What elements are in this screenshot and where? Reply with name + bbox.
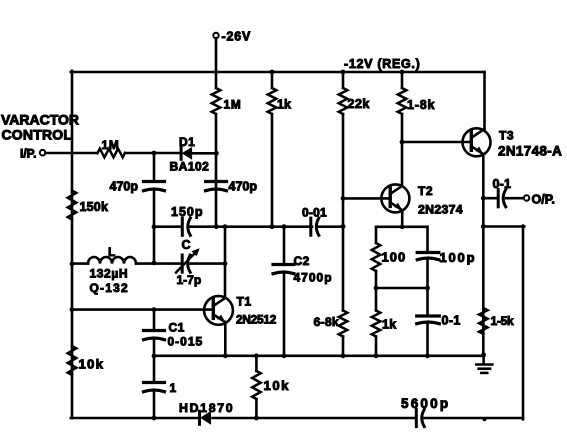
svg-text:0-1: 0-1: [442, 314, 461, 328]
junction: link to tank wire: [223, 224, 228, 229]
resistor 1M (series input): [98, 149, 126, 158]
label C1: [169, 321, 185, 335]
resistor 1.8k: [398, 88, 407, 114]
label 0-01: [302, 206, 327, 220]
variable capacitor C 1-7p: [176, 248, 200, 272]
label -12V (REG.): [344, 57, 420, 71]
label 1M: [224, 98, 242, 112]
junction: ground node: [481, 352, 486, 357]
wire: output tap to 0.1: [483, 197, 498, 200]
label -26V: [222, 30, 252, 44]
junction: tank at left rail: [70, 261, 75, 266]
junction: T1 collector node: [223, 261, 228, 266]
label 1: [170, 381, 177, 395]
svg-text:5600p: 5600p: [401, 396, 450, 411]
resistor 1.5k: [479, 308, 488, 334]
wire: 1k branch: [375, 288, 378, 311]
ground symbol: [476, 355, 492, 373]
label 1k (top): [277, 98, 291, 112]
label 470p (right): [229, 180, 258, 194]
wire: tank to 150p: [154, 225, 182, 228]
wire: 0.01 to 22k rail: [319, 225, 344, 228]
resistor 6.8k: [339, 311, 348, 337]
svg-text:D1: D1: [179, 135, 195, 149]
svg-text:1-8k: 1-8k: [407, 98, 435, 112]
svg-text:-12V (REG.): -12V (REG.): [344, 57, 420, 71]
resistor 100 ohm: [372, 243, 381, 271]
svg-text:VARACTOR: VARACTOR: [1, 112, 79, 128]
svg-text:6-8k: 6-8k: [314, 315, 339, 329]
wire: right vertical rail: [522, 226, 525, 420]
junction: bottom bus at 1 cap: [152, 416, 157, 421]
label Q-132: [90, 281, 129, 295]
label BA102: [170, 160, 210, 174]
resistor 1k (top): [268, 88, 277, 114]
junction: tank top node: [152, 261, 157, 266]
transistor T2 2N2374: [381, 184, 409, 212]
wire: 150p to 0.01 row: [191, 225, 313, 228]
svg-text:1-7p: 1-7p: [177, 273, 202, 287]
capacitor 0.1 (emitter bypass): [417, 316, 440, 324]
wire: varactor node down to 470p: [153, 153, 156, 182]
svg-text:BA102: BA102: [170, 160, 210, 174]
label 0-1 (bypass): [442, 314, 461, 328]
capacitor 470p (left): [144, 182, 165, 191]
svg-text:0-01: 0-01: [302, 206, 327, 220]
wire: bottom return bus (HD1870 to 5600p): [213, 417, 417, 420]
terminal: -26V supply: [213, 33, 218, 38]
svg-text:1M: 1M: [224, 98, 242, 112]
junction: C2 tap: [282, 224, 287, 229]
svg-text:132µH: 132µH: [90, 267, 129, 281]
wire: bus to 1.8k: [401, 72, 404, 88]
capacitor 100p: [417, 253, 439, 260]
svg-text:C2: C2: [294, 254, 310, 268]
junction: right rail tap: [481, 224, 486, 229]
wire: mid row: [376, 287, 428, 290]
svg-text:Q-132: Q-132: [90, 281, 129, 295]
label O/P.: [532, 193, 555, 207]
wire: emitter row: [376, 226, 428, 229]
label 10k (middle): [264, 378, 291, 393]
wire: T1 base from left rail: [72, 308, 214, 311]
junction: D1 cathode node: [214, 151, 219, 156]
wire: 100R branch upper: [375, 227, 378, 243]
resistor 150k: [68, 191, 77, 220]
wire: 100p to mid row: [426, 260, 429, 289]
junction: 1k at ground row: [374, 353, 379, 358]
terminal: I/P input: [40, 150, 46, 156]
resistor 1k (middle): [372, 311, 381, 337]
svg-text:100p: 100p: [440, 250, 477, 265]
label 5600p: [401, 396, 450, 411]
wire: inductor to variable capacitor C: [136, 262, 182, 265]
label 1-5k: [491, 314, 514, 328]
svg-text:T1: T1: [237, 295, 252, 309]
svg-text:150p: 150p: [171, 205, 204, 219]
label 10k (left): [79, 357, 105, 372]
capacitor 5600p: [416, 409, 424, 426]
capacitor 0.1 (output): [498, 190, 506, 207]
junction: output tap: [481, 196, 486, 201]
svg-text:HD1870: HD1870: [179, 401, 234, 415]
svg-text:2N2374: 2N2374: [418, 203, 463, 217]
svg-text:1M: 1M: [102, 138, 120, 152]
junction: C1 at ground row: [152, 353, 157, 358]
inductor L 132uH: [88, 257, 136, 264]
capacitor C2 4700p: [273, 265, 294, 274]
transistor T1 2N2512: [204, 296, 233, 325]
label 100: [382, 250, 407, 265]
label CONTROL: [2, 127, 73, 143]
wire: 100p branch upper: [426, 227, 429, 252]
svg-text:-26V: -26V: [222, 30, 252, 44]
wire: D1 cathode to -26V divider: [192, 152, 217, 155]
wire: 470p to tank top: [153, 190, 156, 264]
svg-text:1k: 1k: [277, 98, 291, 112]
label 470p (left): [110, 180, 139, 194]
junction: bottom bus nub: [482, 417, 486, 421]
svg-text:2N1748-A: 2N1748-A: [498, 144, 562, 159]
junction: 10k bottom: [254, 416, 259, 421]
capacitor 470p (right, on -26V divider): [206, 182, 227, 191]
capacitor 0.01: [311, 218, 319, 235]
wire: T1 emitter down: [224, 322, 227, 356]
diode D1: [181, 147, 192, 159]
label T3: [499, 129, 514, 143]
wire: left vertical rail: [71, 71, 74, 418]
junction: base wire at C1 branch: [152, 307, 157, 312]
svg-text:O/P.: O/P.: [532, 193, 555, 207]
wire: C1 to ground row: [153, 339, 156, 383]
svg-text:T3: T3: [499, 129, 514, 143]
junction: T1 emitter at ground row: [223, 353, 228, 358]
svg-text:1: 1: [170, 381, 177, 395]
junction: mid row right: [425, 286, 430, 291]
svg-text:150k: 150k: [80, 200, 109, 214]
label 2N1748-A: [498, 144, 562, 159]
wire: ground row: [154, 354, 484, 357]
junction: base wire at left rail: [70, 307, 75, 312]
wire: 22k down to 6.8k: [342, 114, 345, 311]
wire: top supply bus: [71, 71, 485, 74]
svg-text:10k: 10k: [79, 357, 105, 372]
junction: varactor node: [152, 151, 157, 156]
junction: 22k at bus: [341, 70, 346, 75]
junction: T2 emitter node: [400, 224, 405, 229]
junction: T2 base tap: [341, 196, 346, 201]
label T1: [237, 295, 252, 309]
svg-text:C1: C1: [169, 321, 185, 335]
label HD1870: [179, 401, 234, 415]
transistor T3 2N1748-A: [463, 128, 491, 156]
svg-text:0-015: 0-015: [168, 335, 204, 349]
label 4700p: [294, 271, 333, 285]
wire: bus to 1k: [271, 72, 274, 88]
junction: 150p wire tap: [152, 224, 157, 229]
wire: -26V feed down to bus and 1M: [215, 38, 218, 88]
svg-text:1-5k: 1-5k: [491, 314, 514, 328]
wire: bottom return bus (left of HD1870): [71, 417, 199, 420]
diode HD1870: [200, 411, 211, 424]
label D1: [179, 135, 195, 149]
wire: T3 emitter down: [482, 154, 485, 355]
wire: C2 to ground row: [283, 273, 286, 357]
label T2: [418, 184, 433, 198]
wire: bus to 22k: [342, 72, 345, 88]
capacitor C1 0.015: [144, 331, 165, 340]
svg-text:C: C: [182, 238, 191, 252]
wire: ground row to 10k: [255, 356, 258, 371]
wire: 1k to ground row: [375, 337, 378, 357]
junction: C2 at ground row: [282, 353, 287, 358]
svg-text:10k: 10k: [264, 378, 291, 393]
junction: 6.8k at ground row: [341, 353, 346, 358]
terminal: O/P output: [524, 195, 529, 200]
svg-text:470p: 470p: [110, 180, 139, 194]
label 100p: [440, 250, 477, 265]
label 1-7p: [177, 273, 202, 287]
svg-text:2N2512: 2N2512: [236, 313, 277, 327]
label 1M (series): [102, 138, 120, 152]
junction: 22k rail at 0.01: [341, 224, 346, 229]
svg-text:T2: T2: [418, 184, 433, 198]
wire: 1.8k to T2 collector: [401, 114, 404, 185]
label 6-8k: [314, 315, 339, 329]
wire: 1 cap to bottom bus: [153, 391, 156, 419]
svg-text:4700p: 4700p: [294, 271, 333, 285]
junction: 10k top: [254, 353, 259, 358]
wire: 1M to D1 junction: [215, 114, 218, 227]
wire: 1k down to 150p row: [271, 114, 274, 227]
wire: T2 base wire: [343, 197, 390, 200]
label 132uH: [90, 267, 129, 281]
wire: T3 base wire: [402, 141, 472, 144]
junction: T3 base tap: [400, 140, 405, 145]
resistor 10k (left): [68, 346, 77, 375]
wire: base row down to C1: [153, 310, 156, 331]
label C2: [294, 254, 310, 268]
wire: input to 1M series resistor: [45, 152, 97, 155]
junction: 1k at bus: [270, 70, 275, 75]
label I/P.: [20, 147, 36, 161]
svg-text:L: L: [108, 245, 115, 259]
wire: T3 emitter to right rail: [484, 225, 524, 228]
wire: bus corner down to T3 collector: [483, 72, 486, 130]
svg-text:0-1: 0-1: [493, 177, 512, 191]
svg-text:22k: 22k: [348, 97, 370, 111]
label 0-015: [168, 335, 204, 349]
label 150p: [171, 205, 204, 219]
junction: mid row left: [374, 286, 379, 291]
wire: T2 emitter down: [401, 210, 404, 227]
label 1k (middle): [382, 318, 397, 332]
wire: T1 collector up to tank: [224, 264, 227, 299]
wire: 1M to D1 anode: [125, 152, 181, 155]
svg-text:470p: 470p: [229, 180, 258, 194]
wire: bottom return bus (right of 5600p): [424, 417, 523, 420]
label 22k: [348, 97, 370, 111]
junction: 1.8k at bus: [400, 70, 405, 75]
wire: 10k to bottom bus: [255, 399, 258, 418]
label 2N2374: [418, 203, 463, 217]
junction: 0.1 at ground row: [425, 353, 430, 358]
label 1-8k: [407, 98, 435, 112]
svg-text:1k: 1k: [382, 318, 397, 332]
resistor 22k: [339, 88, 348, 114]
wire: 100R to mid row: [375, 271, 378, 288]
svg-text:CONTROL: CONTROL: [2, 127, 73, 143]
label C: [182, 238, 191, 252]
wire: 0.1 to ground row: [426, 324, 429, 356]
label VARACTOR: [1, 112, 79, 128]
label 150k: [80, 200, 109, 214]
wire: C to T1 collector node: [191, 262, 226, 265]
label 2N2512: [236, 313, 277, 327]
wire: 0.1 to O/P terminal: [506, 197, 524, 200]
capacitor 1 (bottom left): [144, 383, 165, 392]
resistor 1M (vertical, -26V rail): [212, 88, 221, 114]
wire: link down to tank wire: [224, 227, 227, 264]
capacitor 150p: [182, 218, 190, 235]
junction: 470p/D1 branch lands: [214, 224, 219, 229]
wire: 0.01 row down to C2: [283, 227, 286, 265]
label L: [108, 245, 115, 259]
wire: 0.1 branch upper: [426, 288, 429, 316]
junction: 1k branch lands: [270, 224, 275, 229]
label 0-1 (output): [493, 177, 512, 191]
resistor 10k (middle): [252, 371, 261, 399]
wire: left rail to inductor: [72, 262, 88, 265]
wire: 6.8k to ground row: [342, 337, 345, 357]
svg-text:100: 100: [382, 250, 407, 265]
svg-text:I/P.: I/P.: [20, 147, 36, 161]
